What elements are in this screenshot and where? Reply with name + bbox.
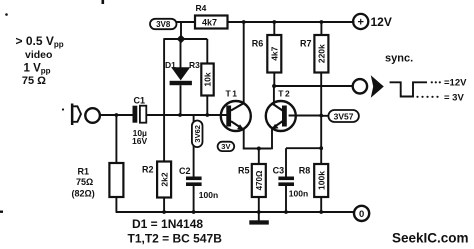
- svg-text:R2: R2: [142, 165, 154, 175]
- T2 emitter drop: [271, 128, 273, 149]
- input connector arrow: [71, 104, 81, 126]
- input terminal circle: [85, 108, 100, 123]
- node rail R6: [272, 20, 276, 24]
- svg-text:R8: R8: [299, 166, 311, 176]
- svg-text:(82Ω): (82Ω): [72, 189, 95, 199]
- svg-text:R4: R4: [196, 3, 207, 13]
- svg-text:4k7: 4k7: [202, 17, 217, 27]
- node R1 tap: [115, 113, 119, 117]
- node rail C2: [192, 210, 196, 214]
- 3V8 oval: [150, 19, 195, 29]
- node D1/base line: [178, 113, 182, 117]
- scan speck left edge low: [0, 211, 3, 213]
- svg-text:sync.: sync.: [385, 53, 413, 65]
- svg-text:C1: C1: [134, 96, 146, 106]
- svg-text:75Ω: 75Ω: [76, 177, 93, 187]
- svg-text:D1 = 1N4148: D1 = 1N4148: [132, 217, 203, 231]
- node R3/base line: [205, 113, 209, 117]
- svg-text:C3: C3: [273, 166, 285, 176]
- capacitor C1: [132, 96, 147, 147]
- capacitor C2: [179, 115, 218, 212]
- resistor R3: [189, 39, 214, 115]
- svg-text:0: 0: [359, 209, 364, 220]
- svg-text:+: +: [357, 17, 363, 29]
- 0V terminal: [354, 206, 369, 221]
- svg-text:T1,T2 = BC 547B: T1,T2 = BC 547B: [128, 232, 223, 246]
- node emitters/R5: [257, 147, 261, 151]
- T2 collector riser: [273, 86, 275, 104]
- resistor R5: [238, 149, 266, 213]
- +12V terminal: [353, 14, 392, 29]
- emitter common wire: [243, 148, 271, 150]
- node rail T1 collector: [242, 20, 246, 24]
- node rail R8: [319, 210, 323, 214]
- node A: [177, 35, 186, 44]
- svg-text:R3: R3: [189, 60, 200, 70]
- scan speck near input: [62, 108, 64, 110]
- svg-text:R1: R1: [78, 167, 90, 177]
- T2 base wire: [289, 115, 321, 117]
- svg-text:T2: T2: [278, 89, 291, 99]
- svg-text:video: video: [25, 49, 52, 61]
- C3/R8 top wire: [286, 147, 321, 149]
- node R7/R8/C3: [319, 146, 323, 150]
- T1 collector riser: [243, 22, 245, 104]
- svg-text:12V: 12V: [371, 15, 392, 29]
- svg-text:T1: T1: [226, 89, 239, 99]
- svg-text:3V: 3V: [221, 142, 230, 151]
- waveform top dots: [431, 81, 441, 83]
- resistor R1: [72, 115, 124, 212]
- svg-text:=12V: =12V: [444, 78, 467, 89]
- scan speck left: [5, 13, 8, 16]
- 3V57 oval: [321, 110, 359, 122]
- node rail R7: [320, 20, 324, 24]
- svg-text:= 3V: = 3V: [444, 93, 464, 104]
- svg-text:3V57: 3V57: [334, 112, 354, 122]
- svg-text:10k: 10k: [203, 72, 213, 86]
- svg-text:100k: 100k: [316, 171, 326, 190]
- svg-text:470Ω: 470Ω: [255, 170, 264, 190]
- ground: [249, 212, 268, 225]
- resistor R7: [300, 22, 328, 148]
- wire input to C1: [100, 114, 133, 116]
- transistor T2: [266, 89, 296, 132]
- svg-text:75 Ω: 75 Ω: [22, 75, 46, 87]
- node R6/T2 collector/output: [272, 84, 276, 88]
- sync output terminal: [353, 79, 367, 93]
- svg-text:100n: 100n: [199, 190, 218, 200]
- svg-text:SeekIC.com: SeekIC.com: [392, 231, 469, 246]
- resistor R4: [195, 3, 228, 29]
- node rail R5/ground: [257, 210, 261, 214]
- svg-text:R7: R7: [300, 39, 312, 49]
- svg-text:16V: 16V: [132, 136, 147, 146]
- sync fat arrow: [371, 75, 384, 98]
- svg-text:R5: R5: [238, 166, 250, 176]
- node A drop from rail: [180, 22, 182, 39]
- scan speck top edge: [102, 0, 105, 4]
- resistor R2: [142, 162, 171, 213]
- top rail R4 to +12V: [228, 21, 355, 23]
- node rail C3: [284, 210, 288, 214]
- 3V62 oval: [192, 121, 203, 148]
- wire node A to R2 (crosses base line): [163, 38, 165, 161]
- svg-text:100n: 100n: [289, 189, 308, 199]
- svg-text:D1: D1: [165, 60, 176, 70]
- wire C1 to T1 base: [146, 114, 229, 116]
- transistor T1: [221, 89, 251, 132]
- waveform bottom dots: [416, 96, 438, 98]
- svg-text:R6: R6: [252, 39, 264, 49]
- svg-text:C2: C2: [179, 166, 191, 176]
- capacitor C3: [273, 148, 309, 212]
- svg-text:4k7: 4k7: [270, 46, 280, 60]
- svg-text:3V8: 3V8: [156, 20, 171, 29]
- svg-text:2k2: 2k2: [159, 172, 169, 186]
- node A horizontal wire: [164, 38, 207, 40]
- node rail R2: [162, 210, 166, 214]
- node T2 base / R7: [319, 114, 323, 118]
- diode D1: [165, 39, 192, 115]
- 3V oval: [218, 142, 235, 152]
- bottom rail: [116, 211, 354, 213]
- input spec text block: [16, 34, 64, 87]
- svg-text:220k: 220k: [317, 44, 327, 63]
- T1 emitter drop: [243, 129, 245, 150]
- svg-text:3V62: 3V62: [193, 125, 202, 143]
- sync waveform: [390, 82, 427, 96]
- resistor R6: [252, 22, 281, 86]
- resistor R8: [299, 148, 328, 212]
- output wire: [274, 85, 352, 87]
